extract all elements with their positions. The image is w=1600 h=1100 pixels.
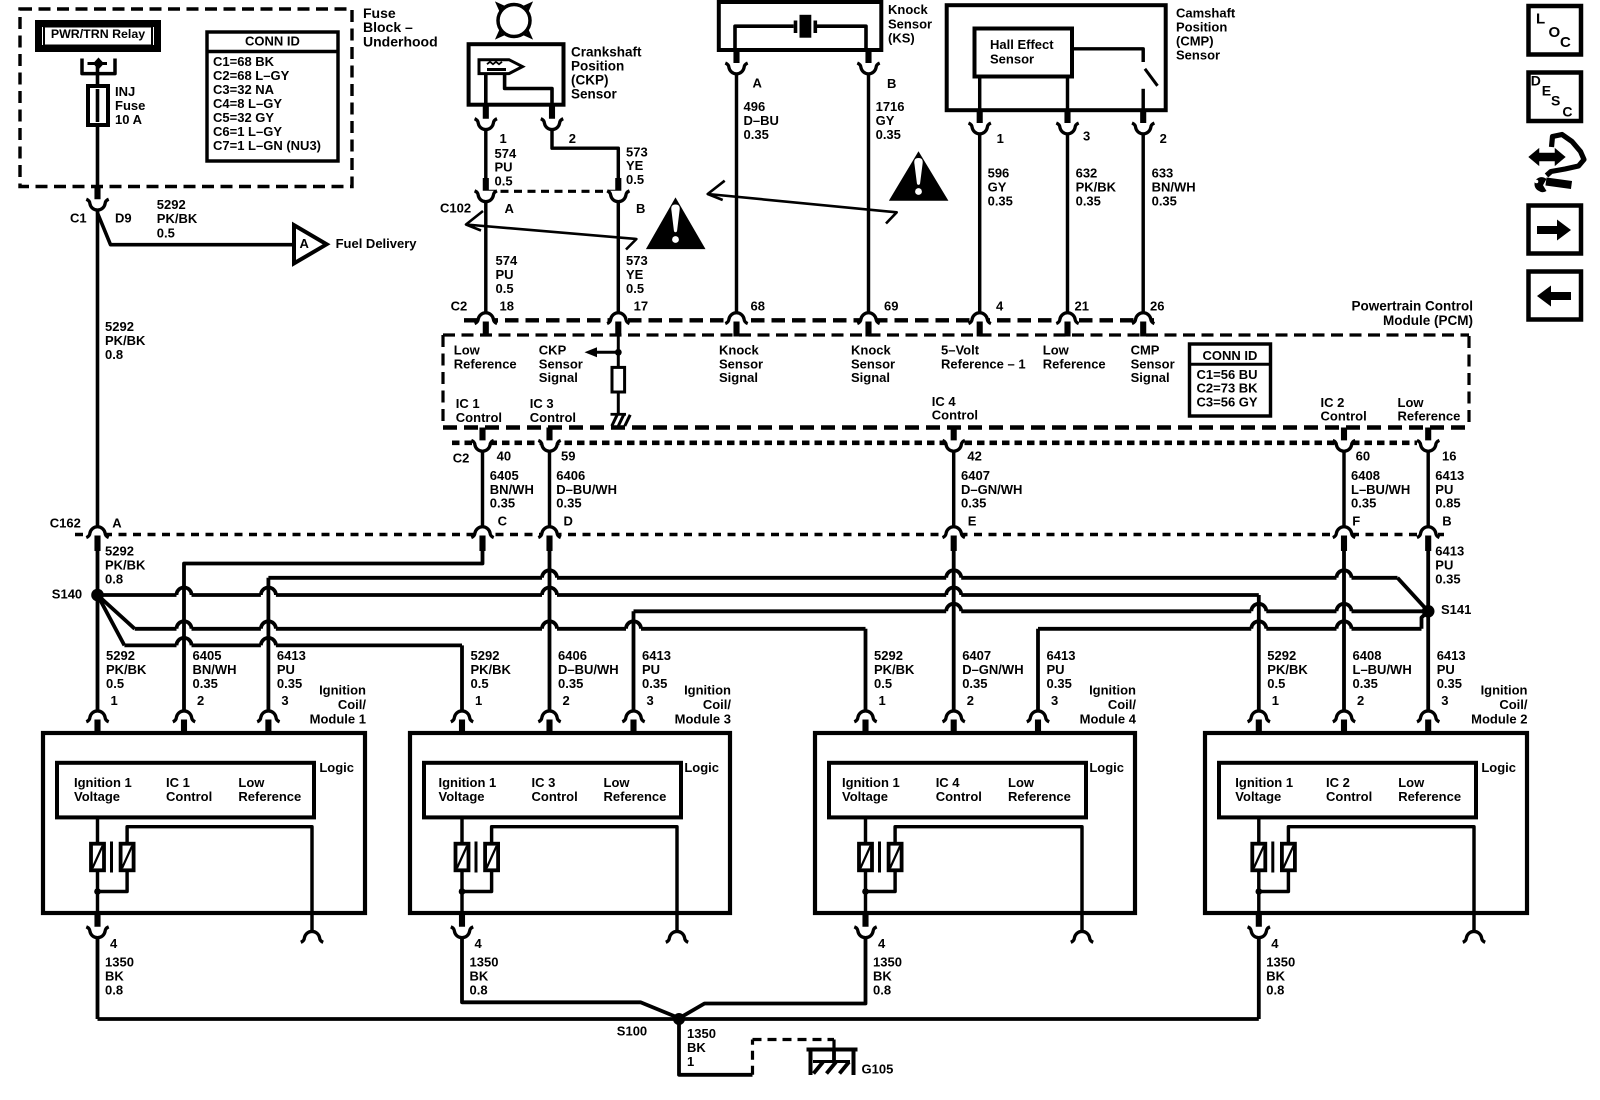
module 1 pin 4 connector xyxy=(86,913,118,951)
wire 6413 bus middle to S141 xyxy=(634,604,1429,612)
svg-text:(CMP): (CMP) xyxy=(1176,34,1214,49)
svg-text:PU: PU xyxy=(1435,482,1453,497)
svg-text:PK/BK: PK/BK xyxy=(157,211,198,226)
svg-text:Sensor: Sensor xyxy=(1176,48,1220,63)
svg-text:0.5: 0.5 xyxy=(1267,676,1285,691)
svg-text:496: 496 xyxy=(744,99,766,114)
svg-text:S140: S140 xyxy=(52,586,82,601)
svg-text:6408: 6408 xyxy=(1353,648,1382,663)
svg-text:Fuse: Fuse xyxy=(115,98,145,113)
relay terminal bracket xyxy=(82,58,115,74)
wire label 5292 PK/BK 0.5 module4 pin1 xyxy=(874,648,915,708)
icon button next arrow xyxy=(1529,206,1582,254)
svg-text:BK: BK xyxy=(1266,969,1285,984)
camshaft position sensor CMP box xyxy=(947,5,1166,110)
svg-text:PU: PU xyxy=(277,662,295,677)
svg-text:6413: 6413 xyxy=(1437,648,1466,663)
svg-text:Voltage: Voltage xyxy=(74,789,120,804)
svg-text:YE: YE xyxy=(626,267,644,282)
svg-text:E: E xyxy=(1542,83,1551,99)
svg-text:10 A: 10 A xyxy=(115,112,143,127)
module 2 coil secondary winding xyxy=(1259,827,1474,932)
KS pin A connector xyxy=(725,49,762,91)
svg-text:632: 632 xyxy=(1076,166,1098,181)
svg-text:L–BU/WH: L–BU/WH xyxy=(1351,482,1410,497)
svg-text:18: 18 xyxy=(500,298,514,313)
svg-text:Signal: Signal xyxy=(719,370,758,385)
svg-text:5292: 5292 xyxy=(105,319,134,334)
splice S100 xyxy=(617,1013,685,1038)
svg-text:68: 68 xyxy=(751,298,765,313)
ignition module connector pin 2 x953 xyxy=(943,711,965,734)
module 3 label Ignition 1 Voltage xyxy=(439,775,497,804)
svg-text:Reference – 1: Reference – 1 xyxy=(941,356,1026,371)
svg-text:21: 21 xyxy=(1075,298,1089,313)
svg-text:0.5: 0.5 xyxy=(471,676,489,691)
svg-text:Reference: Reference xyxy=(454,356,517,371)
label C2 bottom row xyxy=(453,451,470,466)
connector C1 D9 xyxy=(70,187,132,225)
PCM bottom connector pin 60 xyxy=(1333,428,1370,464)
svg-text:0.8: 0.8 xyxy=(873,983,891,998)
svg-text:C2: C2 xyxy=(451,298,468,313)
wire 6407 riser C162E to module4 pin2 xyxy=(952,551,956,710)
module 1 coil primary winding xyxy=(91,817,104,913)
svg-text:6407: 6407 xyxy=(961,468,990,483)
wire 6405 BN/WH PCM40 to C162 C xyxy=(481,451,484,526)
svg-text:0.35: 0.35 xyxy=(556,496,581,511)
module 2 label Low Reference xyxy=(1398,775,1461,804)
svg-text:0.85: 0.85 xyxy=(1435,496,1460,511)
connector C162 dashed line xyxy=(75,533,1444,536)
svg-text:0.5: 0.5 xyxy=(626,172,644,187)
module 1 inner terminal box xyxy=(57,763,314,818)
module 1 coil secondary winding xyxy=(98,827,313,932)
svg-text:PWR/TRN Relay: PWR/TRN Relay xyxy=(51,27,145,41)
wire 1350 module1 pin4 to S100 xyxy=(96,939,100,1019)
svg-text:3: 3 xyxy=(1051,693,1058,708)
svg-text:Knock: Knock xyxy=(888,2,929,17)
ignition module connector pin 1 x462 xyxy=(451,711,473,734)
svg-text:CONN ID: CONN ID xyxy=(1203,348,1258,363)
label C162 xyxy=(50,515,123,530)
svg-text:Reference: Reference xyxy=(238,789,301,804)
svg-text:Module 1: Module 1 xyxy=(310,712,366,727)
PCM internal wire resistor to ground xyxy=(617,392,620,414)
module 1 wire label 1350 BK 0.8 xyxy=(105,955,134,998)
svg-text:6406: 6406 xyxy=(558,648,587,663)
svg-text:0.35: 0.35 xyxy=(744,127,769,142)
svg-text:C2=73 BK: C2=73 BK xyxy=(1197,381,1259,396)
svg-text:S141: S141 xyxy=(1441,602,1471,617)
PCM label Knock Sensor Signal pin69 xyxy=(851,343,895,385)
module 3 label Low Reference xyxy=(604,775,667,804)
wire label 6405 BN/WH 0.35 xyxy=(490,468,534,528)
svg-text:1: 1 xyxy=(879,693,886,708)
svg-text:60: 60 xyxy=(1356,449,1370,464)
PCM top connector pin 17 xyxy=(607,298,648,336)
PCM internal resistor xyxy=(612,367,625,392)
svg-text:0.8: 0.8 xyxy=(470,983,488,998)
svg-text:PK/BK: PK/BK xyxy=(105,558,146,573)
wire label 632 PK/BK 0.35 xyxy=(1076,166,1117,209)
svg-text:Signal: Signal xyxy=(1131,370,1170,385)
wire label 6408 L-BU/WH 0.35 xyxy=(1351,468,1410,528)
module 3 pin 4 connector xyxy=(451,913,483,951)
wire 496 D-BU KS to PCM pin 68 xyxy=(735,75,738,312)
svg-text:2: 2 xyxy=(1357,693,1364,708)
PCM top connector pin 18 xyxy=(475,298,514,336)
wire 5292 riser C162A to S140 to module1 pin1 xyxy=(96,551,100,710)
module 4 label IC 4 Control xyxy=(936,775,982,804)
ignition module connector pin 2 x549 xyxy=(538,711,560,734)
CKP internal wire pin2 xyxy=(505,74,552,105)
module 4 inner terminal box xyxy=(829,763,1086,818)
svg-text:1: 1 xyxy=(475,693,482,708)
svg-text:Module 3: Module 3 xyxy=(675,712,731,727)
module 4 coil core xyxy=(878,842,881,873)
CMP pin 1 connector xyxy=(969,109,1004,146)
wire 6413 module4 pin3 riser xyxy=(1036,629,1040,710)
svg-text:Control: Control xyxy=(932,408,978,423)
svg-text:IC 1: IC 1 xyxy=(166,775,190,790)
svg-text:1350: 1350 xyxy=(873,955,902,970)
wire label 1716 GY 0.35 xyxy=(876,99,905,142)
wire label 573 YE 0.5 upper xyxy=(626,145,648,187)
svg-text:L–BU/WH: L–BU/WH xyxy=(1353,662,1412,677)
svg-text:Sensor: Sensor xyxy=(990,52,1034,67)
PCM label 5-Volt Reference 1 xyxy=(941,343,1026,372)
svg-text:0.35: 0.35 xyxy=(277,676,302,691)
svg-text:6405: 6405 xyxy=(193,648,222,663)
warning triangle 2 xyxy=(889,151,949,201)
ignition module connector pin 3 x268 xyxy=(257,711,279,734)
svg-text:G105: G105 xyxy=(862,1062,894,1077)
PCM label IC 1 Control xyxy=(456,396,502,425)
svg-text:PU: PU xyxy=(1437,662,1455,677)
wire 6408 riser C162F to module2 pin2 xyxy=(1342,551,1346,710)
wire 573 YE CKP to C102 xyxy=(552,131,618,179)
svg-text:0.35: 0.35 xyxy=(1076,194,1101,209)
svg-text:Control: Control xyxy=(166,789,212,804)
module 2 coil core xyxy=(1271,842,1274,873)
wire label 5292 PK/BK 0.5 fuel delivery branch xyxy=(157,197,198,240)
svg-text:Coil/: Coil/ xyxy=(703,697,732,712)
PCM top connector pin 69 xyxy=(857,298,898,336)
wire label 5292 PK/BK 0.5 module1 pin1 xyxy=(106,648,147,708)
wire 6413 riser C162B through S141 to module2 pin3 xyxy=(1426,551,1430,710)
wire relay to fuse xyxy=(96,66,100,86)
svg-text:Ignition: Ignition xyxy=(1089,683,1136,698)
svg-text:1350: 1350 xyxy=(470,955,499,970)
wire 632 PK/BK CMP to PCM pin 21 xyxy=(1066,135,1069,312)
CKP sensing element xyxy=(479,60,523,74)
wire label 6413 PU 0.35 module4 pin3 xyxy=(1047,648,1076,708)
svg-text:D–BU/WH: D–BU/WH xyxy=(558,662,619,677)
module 3 label IC 3 Control xyxy=(532,775,578,804)
svg-text:Ignition: Ignition xyxy=(319,683,366,698)
svg-text:Control: Control xyxy=(1321,409,1367,424)
KS piezo element xyxy=(735,15,866,50)
svg-text:D–BU/WH: D–BU/WH xyxy=(556,482,617,497)
wire label 5292 PK/BK 0.8 xyxy=(105,319,146,362)
svg-text:5292: 5292 xyxy=(105,544,134,559)
svg-text:Coil/: Coil/ xyxy=(1499,697,1528,712)
dashed lead to G105 xyxy=(753,1040,835,1075)
PCM bottom connector dashed row xyxy=(452,440,1417,445)
svg-text:4: 4 xyxy=(475,936,483,951)
svg-text:INJ: INJ xyxy=(115,84,135,99)
svg-text:1: 1 xyxy=(1272,693,1279,708)
svg-text:IC 4: IC 4 xyxy=(936,775,961,790)
module 2 label Ignition 1 Voltage xyxy=(1235,775,1293,804)
connector C162 pin D xyxy=(538,527,560,551)
module 3 wire label 1350 BK 0.8 xyxy=(470,955,499,998)
connector C102 pin B xyxy=(607,178,645,216)
wire 5292 diagonal2 from S140 xyxy=(98,595,125,645)
svg-text:Control: Control xyxy=(1326,789,1372,804)
CKP reluctor gear icon xyxy=(498,5,530,37)
svg-text:1: 1 xyxy=(997,131,1004,146)
label Camshaft Position (CMP) Sensor xyxy=(1176,6,1236,63)
module 1 label Ignition 1 Voltage xyxy=(74,775,132,804)
svg-text:1: 1 xyxy=(111,693,118,708)
ignition coil module 2 box xyxy=(1205,733,1527,913)
wire 6407 D-GN/WH PCM42 to C162 E xyxy=(952,451,955,526)
svg-text:573: 573 xyxy=(626,253,648,268)
wire label 6413 PU 0.35 module2 pin3 xyxy=(1437,648,1466,708)
svg-text:Logic: Logic xyxy=(1089,760,1124,775)
svg-text:2: 2 xyxy=(967,693,974,708)
svg-text:0.5: 0.5 xyxy=(874,676,892,691)
svg-text:633: 633 xyxy=(1152,166,1174,181)
label Powertrain Control Module (PCM) xyxy=(1351,298,1473,328)
wire label 573 YE 0.5 lower xyxy=(626,253,648,296)
PCM internal CKP arrow xyxy=(585,347,622,357)
hall effect sensor box xyxy=(975,29,1073,77)
svg-text:6408: 6408 xyxy=(1351,468,1380,483)
svg-text:(KS): (KS) xyxy=(888,31,915,46)
svg-text:2: 2 xyxy=(563,693,570,708)
splice S140 xyxy=(52,586,104,601)
annotation arrow at C102 xyxy=(466,211,636,250)
fuse block underhood dashed box xyxy=(20,9,352,187)
svg-text:40: 40 xyxy=(497,449,511,464)
svg-text:C6=1 L–GY: C6=1 L–GY xyxy=(213,124,282,139)
module 1 label Low Reference xyxy=(238,775,301,804)
wire 6413 diagonal into S141 xyxy=(1398,578,1429,612)
svg-text:6413: 6413 xyxy=(1435,544,1464,559)
svg-text:Reference: Reference xyxy=(1398,409,1461,424)
svg-text:L: L xyxy=(1536,11,1545,28)
wire 6413 PU PCM16 to C162 B xyxy=(1426,451,1429,526)
knock sensor KS box xyxy=(719,2,882,50)
svg-text:PU: PU xyxy=(642,662,660,677)
svg-text:42: 42 xyxy=(967,449,981,464)
wire label 6406 D-BU/WH 0.35 xyxy=(556,468,617,528)
ignition module connector pin 2 x184 xyxy=(173,711,195,734)
svg-text:6407: 6407 xyxy=(962,648,991,663)
module 4 coil junction xyxy=(862,888,869,895)
PCM bottom connector pin 40 xyxy=(471,428,511,464)
svg-text:0.35: 0.35 xyxy=(558,676,583,691)
module 3 coil core xyxy=(475,842,478,873)
svg-text:Signal: Signal xyxy=(539,370,578,385)
svg-text:Low: Low xyxy=(604,775,631,790)
wire 5292 diagonal1 from S140 xyxy=(98,595,135,629)
icon button DESC xyxy=(1529,73,1582,122)
module 3 coil secondary winding xyxy=(462,827,677,932)
PCM top connector dashed row xyxy=(464,318,1156,322)
svg-text:Low: Low xyxy=(1008,775,1035,790)
svg-text:0.35: 0.35 xyxy=(988,194,1013,209)
icon button back arrow xyxy=(1529,272,1582,320)
svg-text:Voltage: Voltage xyxy=(842,789,888,804)
svg-text:0.5: 0.5 xyxy=(106,676,124,691)
label Ignition Coil Module 1 xyxy=(310,683,367,727)
wire label 1350 BK 1 xyxy=(687,1026,716,1069)
svg-text:6413: 6413 xyxy=(1047,648,1076,663)
svg-text:3: 3 xyxy=(1441,693,1448,708)
svg-text:GY: GY xyxy=(876,113,895,128)
connector C162 pin C xyxy=(471,527,493,551)
PCM label CMP Sensor Signal xyxy=(1131,343,1175,385)
PCM top connector pin 68 xyxy=(725,298,765,336)
svg-text:0.5: 0.5 xyxy=(496,281,514,296)
wire label 6413 PU 0.35 module3 pin3 xyxy=(642,648,671,708)
svg-text:Control: Control xyxy=(456,410,502,425)
wire 6408 L-BU/WH PCM60 to C162 F xyxy=(1342,451,1345,526)
svg-text:6413: 6413 xyxy=(1435,468,1464,483)
svg-text:5292: 5292 xyxy=(471,648,500,663)
svg-text:B: B xyxy=(1442,513,1451,528)
svg-text:C102: C102 xyxy=(440,201,471,216)
ignition module connector pin 1 x1258 xyxy=(1248,711,1270,734)
svg-text:B: B xyxy=(636,201,645,216)
svg-text:A: A xyxy=(112,515,122,530)
svg-text:D: D xyxy=(1531,73,1541,89)
label Ignition Coil Module 2 xyxy=(1471,683,1528,727)
svg-text:17: 17 xyxy=(634,298,648,313)
svg-text:2: 2 xyxy=(1160,131,1167,146)
wire label 6407 D-GN/WH 0.35 xyxy=(961,468,1022,528)
ground G105 xyxy=(807,1048,894,1077)
svg-text:Reference: Reference xyxy=(1398,789,1461,804)
fuel delivery arrow A xyxy=(294,225,417,263)
wire label 496 D-BU 0.35 xyxy=(744,99,779,142)
wire label 5292 PK/BK 0.5 module3 pin1 xyxy=(471,648,512,708)
wire 596 GY CMP to PCM pin 4 xyxy=(978,135,981,312)
svg-text:A: A xyxy=(505,201,515,216)
svg-text:BN/WH: BN/WH xyxy=(490,482,534,497)
svg-text:0.5: 0.5 xyxy=(157,225,175,240)
svg-text:0.35: 0.35 xyxy=(1152,194,1177,209)
PCM label IC 4 Control xyxy=(932,394,978,423)
wire 1350 bus through S100 xyxy=(98,1017,1259,1021)
wire 633 BN/WH CMP to PCM pin 26 xyxy=(1141,135,1144,312)
svg-text:Control: Control xyxy=(530,410,576,425)
svg-text:Position: Position xyxy=(571,59,624,74)
svg-text:C: C xyxy=(498,513,508,528)
wire 1716 GY KS to PCM pin 69 xyxy=(867,75,870,312)
icon vehicle info xyxy=(1530,135,1585,193)
module 2 label IC 2 Control xyxy=(1326,775,1372,804)
wire label 6413 PU 0.35 module1 pin3 xyxy=(277,648,306,708)
svg-text:5292: 5292 xyxy=(157,197,186,212)
svg-text:69: 69 xyxy=(884,298,898,313)
svg-text:Ignition: Ignition xyxy=(1481,683,1528,698)
wire fuse to connector C1 xyxy=(96,125,100,188)
svg-text:59: 59 xyxy=(561,449,575,464)
wire label 6413 PU 0.85 xyxy=(1435,468,1464,528)
wire label 5292 PK/BK 0.5 module2 pin1 xyxy=(1267,648,1308,708)
svg-text:C1=68 BK: C1=68 BK xyxy=(213,54,275,69)
wire 1350 module2 pin4 riser xyxy=(1257,939,1261,1019)
module 3 coil primary winding xyxy=(456,817,469,913)
PCM label Knock Sensor Signal pin68 xyxy=(719,343,763,385)
svg-text:C3=56 GY: C3=56 GY xyxy=(1197,394,1258,409)
svg-text:BK: BK xyxy=(687,1040,706,1055)
wire 574 PU CKP to C102 xyxy=(484,131,487,179)
svg-text:PK/BK: PK/BK xyxy=(874,662,915,677)
svg-text:C1: C1 xyxy=(70,210,87,225)
svg-text:0.8: 0.8 xyxy=(105,347,123,362)
relay K1 PWR/TRN Relay box xyxy=(39,24,158,49)
wire 6413 bus lower to S141 xyxy=(1038,611,1428,629)
svg-text:PK/BK: PK/BK xyxy=(105,333,146,348)
wire label 6406 D-BU/WH 0.35 module3 pin2 xyxy=(558,648,619,708)
label C2 top row xyxy=(451,298,468,313)
svg-text:4: 4 xyxy=(1271,936,1279,951)
svg-text:6405: 6405 xyxy=(490,468,519,483)
svg-text:PK/BK: PK/BK xyxy=(1267,662,1308,677)
module 4 coil secondary winding xyxy=(866,827,1083,932)
warning triangle 1 xyxy=(646,197,706,249)
ignition module connector pin 3 x1428 xyxy=(1417,711,1439,734)
CMP pin 2 connector xyxy=(1132,109,1167,146)
CMP pin 3 connector xyxy=(1056,109,1090,144)
CKP pin 1 connector xyxy=(475,103,507,146)
PCM label Low Reference pin21 xyxy=(1043,343,1106,372)
module 1 coil junction xyxy=(94,888,101,895)
connector C162 pin B xyxy=(1417,527,1439,551)
KS pin B connector xyxy=(857,49,896,91)
PCM dashed box xyxy=(443,335,1469,428)
annotation arrow at knock sensor wires xyxy=(708,181,897,224)
module 3 inner terminal box xyxy=(424,763,681,818)
PCM label Low Reference pin16 xyxy=(1398,395,1461,424)
module 3 coil junction xyxy=(459,888,466,895)
svg-text:0.35: 0.35 xyxy=(961,496,986,511)
module 1 label IC 1 Control xyxy=(166,775,212,804)
svg-text:6413: 6413 xyxy=(277,648,306,663)
svg-text:IC 2: IC 2 xyxy=(1326,775,1350,790)
svg-text:O: O xyxy=(1549,24,1561,41)
svg-text:C3=32 NA: C3=32 NA xyxy=(213,82,275,97)
svg-text:S100: S100 xyxy=(617,1023,647,1038)
svg-text:Logic: Logic xyxy=(684,760,719,775)
wire label 596 GY 0.35 xyxy=(988,166,1013,209)
wire 6406 riser C162D to module3 pin2 xyxy=(548,551,552,710)
module 4 spark output connector xyxy=(1071,931,1093,942)
svg-text:4: 4 xyxy=(996,298,1004,313)
svg-text:2: 2 xyxy=(569,131,576,146)
svg-text:E: E xyxy=(968,513,977,528)
module 2 spark output connector xyxy=(1463,931,1485,942)
label Ignition Coil Module 3 xyxy=(675,683,732,727)
PCM label IC 2 Control xyxy=(1321,395,1367,424)
svg-text:F: F xyxy=(1352,513,1360,528)
